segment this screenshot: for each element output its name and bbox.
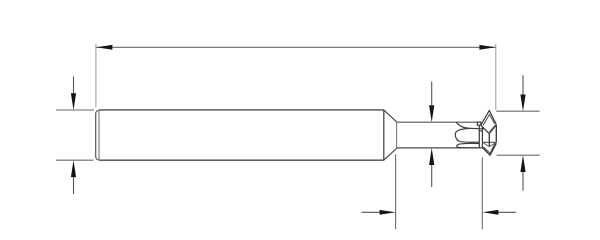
cutter diameter down arrow shaft (522, 75, 524, 94)
overall length left arrowhead (96, 45, 112, 50)
neck start edge (396, 122, 398, 148)
head right end face (495, 125, 497, 143)
shank right end face (383, 110, 385, 160)
taper top diagonal (384, 110, 397, 122)
head left step horizontal (479, 130, 482, 132)
head top-left small step box (477, 122, 481, 125)
overall length right arrowhead (479, 45, 495, 50)
head top tooth inner facet edges (483, 115, 495, 126)
head left face (478, 125, 480, 148)
neck length right arrowhead (482, 210, 498, 215)
head mid horizontal edge (482, 141, 496, 143)
neck length left extension line (395, 155, 397, 230)
neck diameter down arrow shaft (431, 82, 433, 106)
cutter diameter up arrow shaft (522, 172, 524, 191)
flute groove bottom (457, 143, 480, 147)
neck diameter up arrow shaft (431, 165, 433, 187)
neck top line (397, 121, 478, 123)
neck length right arrow shaft (498, 211, 516, 213)
shank bottom edge (99, 159, 384, 161)
neck length right extension line (481, 158, 483, 230)
head shallow inner V facet (482, 142, 496, 146)
neck length left arrowhead (380, 210, 396, 215)
head center tooth edge vertical (488, 134, 490, 147)
cutter diameter down arrowhead (520, 95, 525, 112)
flute curve top (456, 122, 483, 129)
shank diameter down arrow shaft (73, 77, 75, 95)
head valley inner facet (489, 125, 495, 132)
head bottom tooth inner facet edges (483, 143, 495, 154)
neck bottom line (397, 147, 483, 149)
head inner vertical edge (481, 128, 483, 148)
cutter diameter top extension line (496, 110, 539, 112)
neck diameter up arrowhead (429, 148, 434, 165)
shank left end chamfer outer (96, 110, 100, 160)
shank left end chamfer inner edge (98, 110, 100, 160)
shank top edge (99, 109, 384, 111)
cutter diameter up arrowhead (520, 155, 525, 172)
neck length left arrow shaft (362, 211, 381, 213)
shank diameter up arrowhead (71, 160, 76, 177)
overall length right extension line (495, 44, 497, 110)
shank diameter down arrowhead (71, 93, 76, 110)
neck diameter down arrowhead (429, 105, 434, 122)
cutter diameter bottom extension line (497, 154, 540, 156)
head bottom tooth outer edges (482, 143, 496, 155)
shank diameter top extension line (56, 109, 94, 111)
overall length dimension line (96, 46, 495, 48)
shank diameter up arrow shaft (73, 177, 75, 194)
flute groove middle (455, 128, 479, 142)
overall length left extension line (95, 44, 97, 107)
shank diameter bottom extension line (56, 159, 94, 161)
head top tooth outer edges (481, 111, 497, 126)
taper bottom diagonal (384, 148, 397, 160)
head valley V between teeth (481, 125, 497, 134)
